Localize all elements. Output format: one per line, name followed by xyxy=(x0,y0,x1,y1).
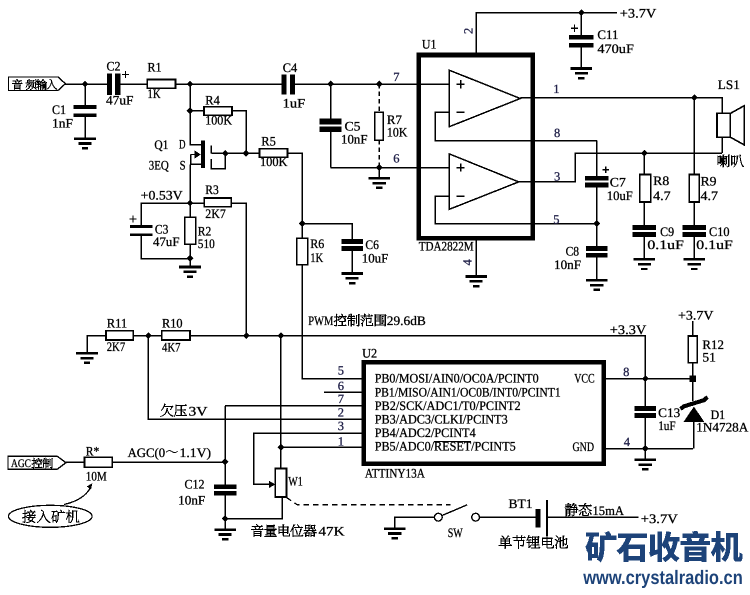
svg-text:100K: 100K xyxy=(260,154,288,169)
svg-text:R5: R5 xyxy=(261,134,276,149)
label 喇叭 (speaker) xyxy=(718,155,744,167)
svg-text:C12: C12 xyxy=(185,477,205,492)
ground (R11) xyxy=(76,353,98,363)
node J (pin6 ground junction) xyxy=(376,164,383,171)
label 音量电位器47K xyxy=(251,524,345,539)
svg-text:R*: R* xyxy=(86,443,100,458)
svg-text:U1: U1 xyxy=(422,36,437,51)
svg-text:4: 4 xyxy=(461,259,475,266)
label 欠压3V xyxy=(161,403,209,418)
svg-text:W1: W1 xyxy=(288,473,303,488)
label 静态15mA xyxy=(565,503,625,518)
svg-text:1uF: 1uF xyxy=(283,96,306,111)
capacitor C9 0.1uF xyxy=(633,224,684,258)
resistor R3 2K7 xyxy=(190,182,231,221)
svg-text:0.1uF: 0.1uF xyxy=(647,237,684,252)
node I (R7 junction) xyxy=(376,81,383,88)
node S (C13/VCC junction) xyxy=(642,375,649,382)
svg-text:R9: R9 xyxy=(701,174,717,189)
node V (AGC junction) xyxy=(222,458,229,465)
svg-text:8: 8 xyxy=(554,126,560,140)
speaker LS1 xyxy=(717,77,744,153)
svg-text:+3.3V: +3.3V xyxy=(610,322,647,337)
U2 pin numbers (left) xyxy=(338,364,344,449)
svg-text:10K: 10K xyxy=(387,124,408,139)
wire node F to C3 xyxy=(141,203,190,225)
svg-text:1N4728A: 1N4728A xyxy=(696,419,749,434)
pin 8 wire to C7 xyxy=(596,141,598,177)
wire undervoltage divider to U2 pin2 xyxy=(148,336,363,420)
op-amp A (top half of U1) xyxy=(449,70,520,127)
capacitor C10 0.1uF xyxy=(683,224,733,258)
svg-text:VCC: VCC xyxy=(574,371,595,386)
MCU U2 ATTINY13A box xyxy=(362,345,603,480)
svg-text:SW: SW xyxy=(448,525,464,540)
svg-text:5: 5 xyxy=(338,364,344,378)
svg-text:Q1: Q1 xyxy=(154,137,168,152)
capacitor C11 470uF (polarized) xyxy=(569,13,634,68)
svg-text:470uF: 470uF xyxy=(597,41,634,56)
svg-text:0.1uF: 0.1uF xyxy=(696,237,733,252)
W1 wiper arrow xyxy=(269,481,276,488)
svg-text:4K7: 4K7 xyxy=(162,339,181,354)
svg-text:BT1: BT1 xyxy=(509,496,533,511)
ground (C10) xyxy=(684,259,706,269)
svg-text:+3.7V: +3.7V xyxy=(641,511,679,526)
svg-text:3: 3 xyxy=(338,419,344,433)
svg-text:PWM: PWM xyxy=(308,313,333,328)
callout ellipse 接入矿机 xyxy=(9,505,93,527)
wire ground node to W1 bottom xyxy=(225,497,282,519)
svg-text:8: 8 xyxy=(623,365,629,379)
pin 4 wire to ground xyxy=(475,238,477,275)
ground (R2) xyxy=(179,267,201,277)
resistor R1 1K xyxy=(147,60,175,102)
node P (R11/R10 junction) xyxy=(145,332,152,339)
svg-text:1: 1 xyxy=(553,82,559,96)
node X (U2 pin1 / W1 junction) xyxy=(278,444,285,451)
svg-text:R10: R10 xyxy=(162,316,183,331)
svg-text:+0.53V: +0.53V xyxy=(141,188,184,203)
svg-text:1: 1 xyxy=(338,434,344,448)
svg-text:C11: C11 xyxy=(597,27,618,42)
U2 pin row labels xyxy=(375,371,595,455)
svg-text:2K7: 2K7 xyxy=(205,206,226,221)
svg-text:100K: 100K xyxy=(205,113,232,128)
wire ground to switch xyxy=(395,517,434,527)
svg-text:LS1: LS1 xyxy=(718,77,740,92)
svg-text:47uF: 47uF xyxy=(153,234,180,249)
svg-text:GND: GND xyxy=(573,439,595,454)
label 单节锂电池 xyxy=(499,536,568,549)
svg-text:D: D xyxy=(179,136,186,151)
svg-text:6: 6 xyxy=(338,379,344,393)
op-amp IC U1 TDA2822M box xyxy=(419,36,533,253)
pin 3 wire to return line xyxy=(519,153,722,182)
wire C2 to R1 xyxy=(120,83,147,85)
pin 1 wire to speaker xyxy=(520,98,722,114)
wire switch to battery xyxy=(480,516,536,518)
svg-text:1nF: 1nF xyxy=(52,116,73,131)
resistor R9 4.7 xyxy=(689,98,718,225)
capacitor C6 10uF xyxy=(302,224,388,273)
ground (C11) xyxy=(571,69,593,79)
node E (R4/R5 junction) xyxy=(243,150,250,157)
svg-text:2: 2 xyxy=(462,28,476,34)
node F (source bias node) xyxy=(187,200,194,207)
svg-text:15mA: 15mA xyxy=(593,503,625,518)
ground (C6) xyxy=(341,274,363,284)
port 音频输入 (audio input flag) xyxy=(9,77,66,91)
capacitor C1 1nF xyxy=(52,84,97,137)
resistor R8 4.7 xyxy=(640,153,671,225)
svg-text:4.7: 4.7 xyxy=(653,188,671,203)
dashed mechanical link W1 to SW xyxy=(287,498,451,505)
svg-text:47uF: 47uF xyxy=(106,92,134,107)
wire gate to R5 xyxy=(211,152,259,154)
svg-text:www.crystalradio.cn: www.crystalradio.cn xyxy=(582,567,742,589)
svg-text:R8: R8 xyxy=(653,173,669,188)
svg-text:S: S xyxy=(180,158,186,173)
wire R3 right down to +3.3V rail xyxy=(231,203,246,336)
switch SW xyxy=(434,505,479,540)
svg-text:AGC(0: AGC(0 xyxy=(128,445,166,460)
svg-text:PB5/ADC0/RESET/PCINT5: PB5/ADC0/RESET/PCINT5 xyxy=(375,439,516,454)
svg-text:C2: C2 xyxy=(107,58,121,73)
node A (input junction) xyxy=(82,81,89,88)
svg-text:R3: R3 xyxy=(205,182,219,197)
node N (pin5/C8 junction) xyxy=(593,220,600,227)
wire input to C2 xyxy=(65,83,106,85)
wire R1 to C4 xyxy=(176,83,282,85)
svg-text:1K: 1K xyxy=(310,250,323,265)
svg-text:R11: R11 xyxy=(107,316,128,331)
node M (R8 junction on return line) xyxy=(641,150,648,157)
wire VCC pin8 xyxy=(604,378,693,380)
capacitor C4 1uF xyxy=(281,60,305,111)
capacitor C7 10uF (polarized) xyxy=(585,166,633,223)
svg-text:3V: 3V xyxy=(189,403,209,418)
wire U2 pin3 to W1 wiper xyxy=(254,433,364,484)
resistor R2 510 xyxy=(185,203,215,266)
wire GND pin4 xyxy=(604,448,693,450)
svg-text:51: 51 xyxy=(702,350,716,365)
ground (C8) xyxy=(586,280,608,290)
label PWM控制范围29.6dB xyxy=(308,313,426,328)
callout arrow to R* xyxy=(64,488,91,505)
wire W1 junction up to +3.3V rail xyxy=(280,336,282,448)
resistor R11 2K7 xyxy=(87,316,133,354)
ground (pin6) xyxy=(368,178,390,188)
resistor R* 10M xyxy=(85,443,113,483)
wire R4 to gate node xyxy=(232,111,246,154)
wire battery to +3.7V xyxy=(547,516,639,518)
node O (R5/R6/C6 junction) xyxy=(299,220,306,227)
svg-text:47K: 47K xyxy=(319,524,346,539)
svg-text:U2: U2 xyxy=(362,345,377,360)
svg-text:29.6dB: 29.6dB xyxy=(387,313,426,328)
svg-text:5: 5 xyxy=(553,212,559,226)
transistor Q1 3EQ (dual-gate MOSFET) xyxy=(149,136,226,203)
svg-text:R4: R4 xyxy=(205,92,220,107)
wire C4 to U1 pin7 xyxy=(295,83,449,85)
svg-text:2: 2 xyxy=(338,406,344,420)
port AGC控制 (AGC flag) xyxy=(8,456,66,470)
node U (C13 ground junction) xyxy=(642,445,649,452)
capacitor C12 10nF xyxy=(178,462,236,529)
svg-text:3EQ: 3EQ xyxy=(149,157,170,172)
ground (C12) xyxy=(214,530,236,540)
node L (speaker/R9 junction) xyxy=(691,94,698,101)
node K (+3.7V / C11 junction) xyxy=(578,9,585,16)
svg-text:+3.7V: +3.7V xyxy=(678,308,714,323)
ground (SW) xyxy=(384,529,406,539)
svg-text:510: 510 xyxy=(198,236,215,251)
resistor R6 1K xyxy=(297,224,364,379)
wire AGC node to U2 pin7 xyxy=(225,405,364,407)
resistor R12 51 xyxy=(678,308,724,379)
resistor R7 10K xyxy=(375,84,408,168)
svg-text:R6: R6 xyxy=(310,236,324,251)
capacitor C2 47uF (polarized) xyxy=(106,58,134,107)
svg-text:ATTINY13A: ATTINY13A xyxy=(365,465,426,480)
svg-text:TDA2822M: TDA2822M xyxy=(419,238,474,253)
wire flag to R* xyxy=(66,461,85,463)
ground (C1) xyxy=(74,139,96,149)
pin 2 wire to +3.7V xyxy=(476,13,617,55)
svg-text:3: 3 xyxy=(554,170,560,184)
capacitor C13 1uF xyxy=(635,379,681,449)
wire R* to AGC node xyxy=(112,461,225,463)
svg-text:AGC: AGC xyxy=(11,458,31,470)
capacitor C8 10nF xyxy=(554,224,608,280)
svg-text:10nF: 10nF xyxy=(554,257,581,272)
svg-text:4: 4 xyxy=(624,435,631,449)
node G (R2/C3 junction) xyxy=(187,255,194,262)
svg-text:7: 7 xyxy=(338,392,344,406)
wire +3.3V rail xyxy=(190,336,645,379)
svg-text:10uF: 10uF xyxy=(607,188,633,203)
ground (C13/U2) xyxy=(635,460,657,470)
wire U2 pin1 xyxy=(281,446,364,448)
node Q (R3 divider junction) xyxy=(243,332,250,339)
svg-text:10M: 10M xyxy=(86,469,107,484)
node T (R12/D1 junction) xyxy=(690,376,696,382)
svg-text:1K: 1K xyxy=(148,86,161,101)
resistor R4 100K xyxy=(190,92,233,127)
ground (pin 4) xyxy=(465,277,487,287)
svg-text:7: 7 xyxy=(393,70,399,84)
wire R5 to R6/C6 node xyxy=(288,153,303,223)
svg-text:R1: R1 xyxy=(148,60,162,75)
node B (R1 right junction) xyxy=(187,81,194,88)
svg-text:10uF: 10uF xyxy=(362,250,389,265)
svg-text:2K7: 2K7 xyxy=(107,339,126,354)
wire op-amp A feedback to pin 8 xyxy=(435,112,597,141)
svg-text:10nF: 10nF xyxy=(341,131,368,146)
node D (gate junction) xyxy=(222,150,229,157)
watermark 矿石收音机 xyxy=(585,531,742,563)
svg-text:1.1V): 1.1V) xyxy=(180,445,212,460)
svg-text:6: 6 xyxy=(393,151,399,165)
battery BT1 xyxy=(509,496,548,536)
node R (W1 top junction) xyxy=(277,332,284,339)
zener diode D1 1N4728A xyxy=(681,379,749,449)
node C (R4 branch junction) xyxy=(187,107,194,114)
op-amp B (bottom half of U1) xyxy=(449,154,518,209)
wire node B down to Q1 drain xyxy=(190,84,201,145)
potentiometer W1 47K xyxy=(275,447,302,497)
node W (C12 ground junction) xyxy=(222,515,229,522)
resistor R5 100K xyxy=(260,134,289,170)
capacitor C3 47uF (polarized) xyxy=(129,215,190,258)
ground (C9) xyxy=(634,259,656,269)
wire op-amp B feedback to pin 5 xyxy=(435,196,597,224)
label AGC(0~1.1V) xyxy=(128,445,211,460)
node H (C5 junction) xyxy=(327,81,334,88)
svg-text:1uF: 1uF xyxy=(658,418,676,433)
capacitor C5 10nF xyxy=(320,84,368,168)
U2 left pin stub (pin 6) xyxy=(324,391,364,393)
svg-text:C4: C4 xyxy=(283,60,298,75)
svg-text:+3.7V: +3.7V xyxy=(620,6,657,21)
wire C5 to U1 pin6 xyxy=(331,167,450,169)
resistor R10 4K7 xyxy=(133,316,190,355)
svg-text:10nF: 10nF xyxy=(178,492,205,507)
svg-text:4.7: 4.7 xyxy=(701,188,719,203)
